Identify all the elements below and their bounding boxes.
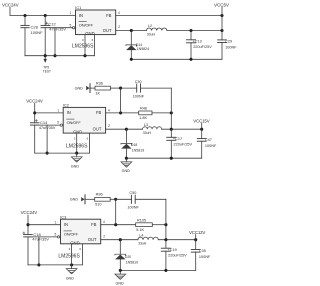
label C47 [205, 138, 212, 142]
op IC3 LM2596S regulator box [60, 214, 100, 245]
net label VCC5V (circuit 1 output) [214, 2, 230, 7]
svg-text:+C13: +C13 [193, 39, 202, 43]
label C30 [135, 80, 142, 84]
wire OUT of IC3 to inductor L4 [101, 239, 138, 241]
value 100NF of C50 [127, 206, 139, 210]
svg-text:1: 1 [57, 109, 59, 113]
label +C19 [168, 248, 177, 252]
net label VCC24V (circuit 2 input) [26, 99, 43, 104]
wire input ground rail of circuit 3 [28, 263, 82, 266]
capacitor C28 100NF input bypass [21, 16, 29, 56]
capacitor C14 47uF/35V input electrolytic [30, 123, 39, 153]
part number LM2596S of IC1 [72, 44, 94, 50]
value 220uF/25V of C17 [174, 143, 193, 147]
label TEST [43, 70, 51, 74]
wire IN of IC3 [28, 224, 61, 226]
inductor L2 [147, 28, 167, 31]
pin number 5 of IC3 [55, 233, 57, 237]
wire L2 to output node [167, 30, 222, 32]
svg-text:C35: C35 [199, 249, 206, 253]
pin number 2 of IC1 OUT [118, 25, 120, 29]
diode D14 1N5824 catch diode [126, 31, 137, 60]
pin number 6 of IC1 tab [92, 38, 94, 42]
label GND below IC3 [66, 277, 75, 281]
svg-text:FB: FB [91, 222, 97, 227]
svg-text:IN: IN [67, 110, 71, 115]
svg-text:D18: D18 [131, 143, 137, 147]
node R36 / C30 junction [119, 87, 122, 90]
node FB junction left [114, 223, 117, 226]
svg-text:220uF/25V: 220uF/25V [168, 253, 187, 257]
svg-text:OUT: OUT [88, 237, 97, 242]
wire output ground rail of circuit 1 [130, 58, 222, 61]
svg-text:+C19: +C19 [168, 248, 177, 252]
net label VCC24V (circuit 1 input) [2, 3, 19, 8]
ground symbol below D20 [115, 270, 126, 279]
svg-text:OUT: OUT [93, 127, 102, 132]
op IC1 LM2596S regulator box [75, 5, 116, 36]
capacitor C30 100NF feed-forward [121, 84, 172, 92]
part number LM2596S of IC3 [58, 254, 80, 260]
svg-text:R46: R46 [140, 107, 147, 111]
svg-text:100NF: 100NF [199, 255, 211, 259]
svg-text:ON/OFF: ON/OFF [64, 232, 79, 237]
wire OUT of IC1 to inductor L2 [116, 30, 147, 32]
svg-text:1: 1 [70, 11, 72, 15]
value 1N5819 of D20 [126, 261, 139, 265]
node IN junction of circuit 3 [26, 223, 29, 226]
svg-text:4: 4 [103, 220, 105, 224]
pin 5 bubble at IC2 ON/OFF [60, 124, 62, 126]
resistor R36 1K to ground [90, 86, 121, 90]
label C28 [31, 25, 39, 30]
node junction C12 on input rail [44, 14, 47, 17]
label GND below D18 [122, 169, 131, 173]
capacitor C18 47uF/35V input electrolytic [24, 235, 33, 265]
power ground symbol at R96 [70, 195, 85, 204]
capacitor C35 100NF output bypass [191, 240, 200, 271]
svg-text:33uH: 33uH [143, 131, 152, 135]
svg-text:4: 4 [108, 108, 110, 112]
svg-text:VCC12V: VCC12V [189, 230, 205, 235]
svg-text:2: 2 [103, 234, 105, 238]
svg-text:IC1: IC1 [75, 5, 81, 10]
svg-text:100NF: 100NF [31, 30, 44, 35]
value 220uF/25V of C19 [168, 253, 187, 257]
svg-text:C14: C14 [40, 120, 48, 125]
wire ON/OFF of IC1 to ground net [50, 27, 73, 29]
label C18 [33, 232, 41, 237]
svg-text:100NF: 100NF [127, 206, 139, 210]
svg-text:510: 510 [95, 203, 101, 207]
label +C13 [193, 39, 202, 43]
svg-text:VCC24V: VCC24V [2, 3, 19, 8]
label D14 [136, 43, 142, 47]
pin 5 bubble at IC1 ON/OFF [72, 27, 74, 29]
capacitor C17 220uF/25V output electrolytic [167, 129, 176, 158]
pin number 4 of IC1 FB [118, 11, 120, 15]
net label VCC24V (circuit 3 input) [21, 210, 38, 215]
wire feed-forward corner down to FB node and output node [170, 88, 172, 129]
value 1N5819 of D18 [132, 148, 145, 152]
label GND below IC2 [71, 165, 80, 169]
pin number 3 of IC2 GND [74, 137, 76, 141]
svg-text:2: 2 [108, 124, 110, 128]
pin number 1 of IC1 [70, 11, 72, 15]
svg-text:C18: C18 [33, 232, 41, 237]
node R96 / C50 junction [114, 198, 117, 201]
wire ON/OFF of IC2 to ground net [39, 124, 60, 126]
svg-text:220uF/25V: 220uF/25V [174, 143, 193, 147]
svg-text:IN: IN [79, 13, 83, 18]
svg-text:220uF/25V: 220uF/25V [193, 45, 212, 49]
svg-text:1: 1 [55, 220, 57, 224]
svg-text:5: 5 [57, 121, 59, 125]
value 220uF/25V of C13 [193, 45, 212, 49]
svg-text:GND: GND [73, 130, 82, 135]
label C12 [48, 21, 56, 26]
wire VCC12V label stub [195, 235, 197, 240]
wire input ground rail of circuit 2 [35, 152, 90, 155]
svg-text:1N5819: 1N5819 [132, 148, 145, 152]
svg-text:100NF: 100NF [225, 46, 237, 50]
svg-text:1.8K: 1.8K [139, 116, 147, 120]
value 33uH of L3 [143, 131, 152, 135]
plus mark of C12 [46, 22, 48, 24]
net label VCC12V (circuit 3 output) [189, 230, 205, 235]
node VCC12V output junction [194, 238, 197, 241]
wire output ground rail of circuit 2 [125, 157, 202, 160]
svg-text:4: 4 [118, 11, 120, 15]
wire IC3 GND pins to ground rail [72, 244, 83, 265]
label C35 [199, 249, 206, 253]
svg-text:GND: GND [75, 86, 84, 90]
wire ON/OFF drop to ground rail [37, 237, 40, 267]
wire L4 to output node [158, 239, 195, 241]
svg-text:VCC5V: VCC5V [214, 2, 230, 7]
value 1K of R36 [95, 91, 100, 95]
pin 5 bubble at IC3 ON/OFF [57, 236, 59, 238]
node diode D14 tap [130, 29, 133, 32]
svg-text:L3: L3 [144, 123, 148, 127]
label C14 [40, 120, 48, 125]
svg-text:GND: GND [66, 277, 75, 281]
resistor R105 feedback upper on FB line [101, 223, 168, 227]
net label VCC15V (circuit 2 output) [193, 118, 209, 123]
svg-text:C28: C28 [31, 25, 39, 30]
resistor R96 510 to ground [85, 197, 116, 201]
value 100NF of C29 [225, 46, 237, 50]
node capacitor C13 tap [189, 29, 192, 32]
svg-text:GND: GND [85, 31, 94, 36]
svg-text:LM2596S: LM2596S [58, 254, 80, 260]
node diode D20 tap [119, 238, 122, 241]
label D20 [125, 255, 131, 259]
node IN junction of circuit 2 [33, 111, 36, 114]
node junction C28 on input rail [23, 14, 26, 17]
wire input ground rail of circuit 1 [25, 54, 95, 57]
pin number 3 of IC3 GND [69, 247, 71, 251]
pin number 2 of IC3 OUT [103, 234, 105, 238]
plus mark of C14 [35, 119, 37, 121]
wire VCC15V label stub [201, 123, 203, 129]
value 47uF/35V of C14 [39, 126, 56, 130]
svg-text:C29: C29 [225, 40, 232, 44]
label C29 [225, 40, 232, 44]
svg-text:33uH: 33uH [138, 242, 147, 246]
diode D20 1N5819 catch diode [115, 240, 126, 271]
value 100NF of C28 [31, 30, 44, 35]
node diode D18 tap [125, 128, 128, 131]
svg-text:C50: C50 [129, 191, 136, 195]
svg-text:D20: D20 [125, 255, 131, 259]
label D18 [131, 143, 137, 147]
capacitor C12 47uF/35V input electrolytic [41, 16, 50, 56]
label C50 [129, 191, 136, 195]
svg-text:5.1K: 5.1K [136, 228, 144, 232]
pin number 4 of IC2 FB [108, 108, 110, 112]
svg-text:ON/OFF: ON/OFF [67, 120, 82, 125]
wire feedback drop to FB line [120, 88, 122, 113]
capacitor C50 100NF feed-forward [116, 195, 166, 203]
part number LM2596S of IC2 [66, 144, 88, 150]
svg-text:IC2: IC2 [63, 103, 69, 108]
label L3 [144, 123, 148, 127]
label +C17 [173, 137, 182, 141]
capacitor C47 100NF output bypass [197, 129, 206, 158]
node VCC15V output junction [200, 128, 203, 131]
svg-text:L4: L4 [139, 233, 143, 237]
wire VCC24V down to input cap [34, 103, 36, 122]
svg-text:5: 5 [55, 233, 57, 237]
svg-text:2: 2 [118, 25, 120, 29]
pin number 6 of IC3 tab [79, 247, 81, 251]
svg-text:100NF: 100NF [205, 144, 217, 148]
wire IC1 GND pins to ground rail [85, 35, 95, 56]
wire feedback drop to FB line [115, 199, 117, 224]
power ground symbol at R36 [75, 84, 90, 93]
value 5.1K of R105 [136, 228, 144, 232]
svg-text:1K: 1K [95, 91, 100, 95]
svg-text:R36: R36 [96, 81, 103, 85]
svg-text:LM2596S: LM2596S [72, 44, 94, 50]
value 47uF/35V of C18 [32, 238, 49, 242]
svg-text:R96: R96 [96, 193, 103, 197]
node capacitor C17 tap [170, 128, 173, 131]
wire output ground rail of circuit 3 [119, 269, 196, 272]
ground symbol below D18 [121, 158, 132, 167]
value 510 of R96 [95, 203, 101, 207]
svg-text:GND: GND [116, 281, 125, 285]
wire feed-forward corner down to FB node and output node [165, 199, 167, 239]
node VCC5V output junction [220, 29, 223, 32]
svg-text:IC3: IC3 [60, 214, 66, 219]
wire ON/OFF drop to ground rail [46, 125, 49, 155]
ground symbol below IC3 [66, 265, 77, 274]
node capacitor C19 tap [164, 238, 167, 241]
value 1.8K of R46 [139, 116, 147, 120]
svg-text:TEST: TEST [43, 70, 51, 74]
svg-text:+C17: +C17 [173, 137, 182, 141]
inductor L4 [138, 237, 158, 240]
svg-text:GND: GND [122, 169, 131, 173]
pin number 2 of IC2 OUT [108, 124, 110, 128]
wire ON/OFF drop to ground rail [53, 28, 56, 58]
test point TP5 arrow [43, 56, 47, 63]
svg-text:GND: GND [70, 198, 79, 202]
wire VCC5V label stub [221, 7, 223, 15]
resistor R46 feedback upper on FB line [106, 111, 173, 115]
capacitor C19 220uF/25V output electrolytic [161, 240, 170, 271]
value 1N5824 of D14 [137, 47, 150, 51]
label R36 [96, 81, 103, 85]
pin number 5 of IC2 [57, 121, 59, 125]
label L2 [148, 24, 152, 28]
svg-text:1N5819: 1N5819 [126, 261, 139, 265]
svg-text:1N5824: 1N5824 [137, 47, 150, 51]
capacitor C13 220uF/25V output electrolytic [186, 31, 195, 60]
svg-text:C30: C30 [135, 80, 142, 84]
value 47uF/35V of C12 [49, 28, 66, 32]
value 100NF of C30 [133, 94, 145, 98]
label GND below D20 [116, 281, 125, 285]
svg-text:L2: L2 [148, 24, 152, 28]
wire IN of IC2 [35, 112, 64, 114]
wire L3 to output node [162, 128, 202, 130]
diode D18 1N5819 catch diode [121, 129, 132, 158]
value 100NF of C47 [205, 144, 217, 148]
pin number 6 of IC2 tab [87, 137, 89, 141]
node FB junction left [119, 111, 122, 114]
svg-text:FB: FB [96, 110, 102, 115]
svg-text:5: 5 [70, 23, 72, 27]
label R46 [140, 107, 147, 111]
ground symbol below IC2 [71, 153, 82, 162]
svg-text:FB: FB [106, 13, 112, 18]
pin number 1 of IC2 [57, 109, 59, 113]
pin number 4 of IC3 FB [103, 220, 105, 224]
svg-text:R105: R105 [137, 219, 146, 223]
svg-text:33uH: 33uH [147, 32, 156, 36]
svg-text:100NF: 100NF [133, 94, 145, 98]
svg-text:VCC15V: VCC15V [193, 118, 209, 123]
wire VCC24V down to input cap [27, 215, 29, 235]
wire OUT of IC2 to inductor L3 [106, 128, 143, 130]
svg-text:C47: C47 [205, 138, 212, 142]
pin number 1 of IC3 [55, 220, 57, 224]
svg-text:47uF/35V: 47uF/35V [32, 238, 49, 242]
svg-text:ON/OFF: ON/OFF [79, 22, 94, 27]
capacitor C29 100NF output bypass [218, 16, 227, 60]
svg-text:GND: GND [71, 165, 80, 169]
op IC2 LM2596S regulator box [63, 103, 106, 135]
svg-text:VCC24V: VCC24V [21, 210, 38, 215]
label TP5 [43, 65, 49, 69]
pin number 3 of IC1 GND [82, 38, 84, 42]
label R96 [96, 193, 103, 197]
value 100NF of C35 [199, 255, 211, 259]
label R105 [137, 219, 146, 223]
label L4 [139, 233, 143, 237]
svg-text:IN: IN [64, 222, 68, 227]
value 33uH of L4 [138, 242, 147, 246]
wire VCC24V rail to IN of IC1 [10, 7, 76, 15]
svg-text:C12: C12 [48, 21, 56, 26]
wire ON/OFF of IC3 to ground net [32, 236, 57, 238]
svg-text:OUT: OUT [103, 28, 112, 33]
wire IC2 GND pins to ground rail [77, 133, 90, 153]
plus mark of C18 [23, 232, 25, 234]
inductor L3 [143, 127, 162, 129]
value 33uH of L2 [147, 32, 156, 36]
svg-text:VCC24V: VCC24V [26, 99, 43, 104]
pin number 5 of IC1 [70, 23, 72, 27]
wire FB line of circuit 1 to output node [116, 14, 224, 17]
